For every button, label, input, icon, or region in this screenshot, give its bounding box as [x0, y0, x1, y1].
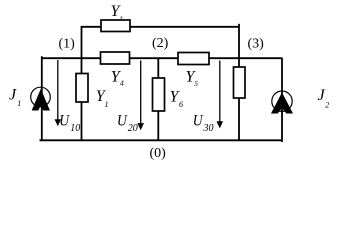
svg-text:(0): (0): [150, 146, 167, 161]
svg-text:4: 4: [120, 79, 124, 88]
svg-text:30: 30: [203, 123, 214, 134]
svg-text:2: 2: [325, 101, 329, 110]
svg-text:(2): (2): [152, 36, 169, 51]
svg-text:6: 6: [179, 100, 183, 109]
svg-text:(1): (1): [59, 36, 76, 51]
svg-text:1: 1: [105, 100, 109, 109]
svg-text:U: U: [117, 113, 128, 130]
svg-text:5: 5: [194, 79, 198, 88]
svg-text:U: U: [193, 112, 204, 129]
svg-text:(3): (3): [248, 36, 265, 51]
svg-text:J: J: [9, 86, 17, 103]
svg-text:U: U: [59, 112, 70, 129]
svg-text:10: 10: [70, 123, 80, 134]
svg-text:20: 20: [128, 123, 138, 134]
svg-text:1: 1: [17, 99, 21, 108]
svg-text:J: J: [318, 87, 326, 104]
